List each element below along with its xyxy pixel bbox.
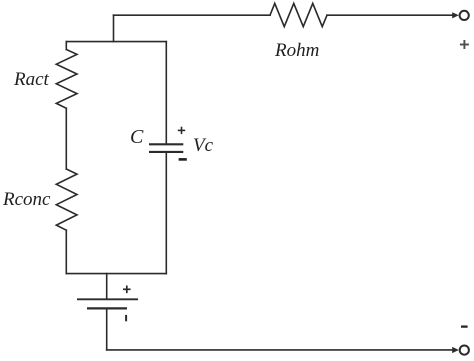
wire left branch middle: [65, 108, 67, 169]
svg-text:Vc: Vc: [193, 135, 214, 156]
wire vertical from top rail to parallel rail: [113, 15, 115, 41]
wire battery stem upper: [106, 274, 108, 299]
minus sign at output terminal: [461, 325, 468, 327]
svg-text:C: C: [130, 126, 144, 148]
battery E negative plate: [87, 307, 127, 309]
wire capacitor branch top: [165, 42, 167, 144]
resistor Rohm: [270, 3, 327, 26]
wire upper rail of parallel RC: [66, 41, 166, 43]
svg-text:Rohm: Rohm: [274, 40, 319, 61]
wire top rail left segment: [114, 14, 271, 16]
minus sign at capacitor: [179, 158, 187, 161]
resistor Rconc: [56, 169, 77, 230]
wire bottom rail of parallel RC: [66, 273, 166, 275]
wire left branch bottom: [65, 230, 67, 273]
arrowhead bottom right: [452, 347, 459, 353]
capacitor C plates: [149, 144, 183, 152]
terminal circle bottom right: [460, 346, 469, 355]
battery E positive plate: [77, 298, 138, 300]
minus tick below battery: [125, 315, 127, 321]
wire battery stem lower: [106, 309, 108, 350]
wire capacitor branch bottom: [165, 153, 167, 274]
arrowhead top right: [452, 12, 459, 18]
plus sign at battery: [123, 286, 131, 294]
resistor Ract: [56, 50, 77, 109]
svg-text:Rconc: Rconc: [2, 189, 51, 210]
terminal circle top right: [460, 11, 469, 20]
wire left branch top: [65, 42, 67, 50]
wire top rail right segment: [327, 14, 452, 16]
plus sign at output terminal: [460, 40, 469, 49]
svg-text:Ract: Ract: [13, 69, 50, 90]
wire bottom rail: [107, 349, 452, 351]
plus sign at capacitor: [178, 127, 185, 134]
